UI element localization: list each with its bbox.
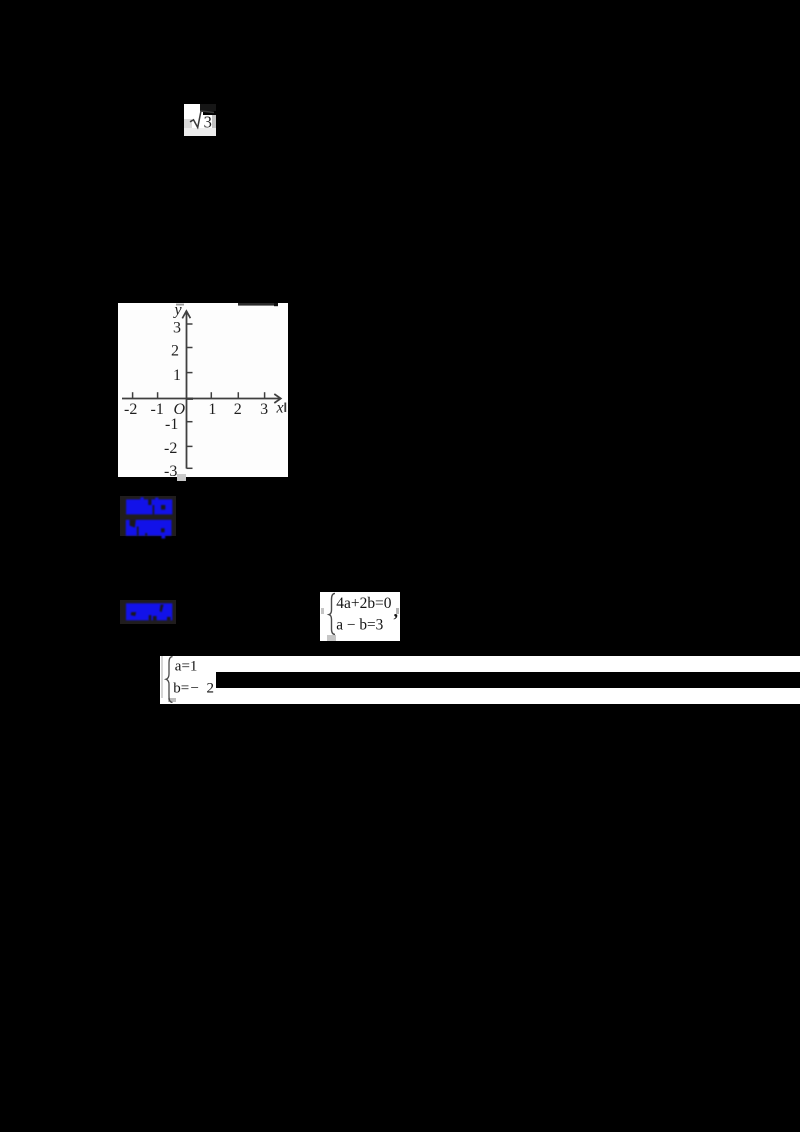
svg-text:b=: b= (173, 680, 189, 696)
svg-text:2: 2 (207, 680, 215, 696)
line1 dark notches (148, 499, 151, 505)
gray handle (168, 698, 176, 703)
svg-text:1: 1 (208, 401, 216, 418)
svg-text:y: y (173, 303, 183, 319)
labels (124, 302, 284, 481)
x ticks (133, 392, 265, 398)
radical sign and 3 (184, 104, 216, 136)
cursor bar right (284, 403, 286, 413)
black notch top-right (200, 104, 216, 111)
brace (166, 656, 173, 702)
svg-text:,: , (394, 601, 399, 621)
line2 dark notches (130, 520, 136, 528)
gray resize handles (321, 608, 324, 614)
svg-text:2: 2 (171, 343, 179, 360)
svg-text:x: x (276, 400, 284, 417)
bottom gray handle (overflows box) (177, 474, 186, 481)
formula image sqrt(3) (184, 104, 216, 136)
top smudge (238, 303, 275, 306)
svg-text:3: 3 (260, 401, 268, 418)
label box 1 (two lines of blue chinese text) (120, 496, 176, 536)
svg-text:a=1: a=1 (175, 658, 198, 674)
equation image 2: {a=1 ; b=-2 with long white strip and black bar (160, 656, 800, 704)
svg-text:a − b=3: a − b=3 (336, 617, 383, 634)
svg-text:−: − (191, 680, 199, 696)
x arrowhead (274, 394, 281, 403)
y ticks (187, 324, 193, 468)
svg-text:4a+2b=0: 4a+2b=0 (336, 595, 391, 612)
svg-text:2: 2 (234, 401, 242, 418)
svg-text:-1: -1 (165, 416, 178, 433)
brace (329, 593, 335, 634)
y-axis (186, 311, 188, 469)
svg-text:-1: -1 (151, 401, 164, 418)
svg-text:1: 1 (173, 367, 181, 384)
svg-text:O: O (174, 401, 186, 418)
equation image 1: {4a+2b=0 ; a-b=3}, (320, 592, 400, 641)
svg-text:3: 3 (204, 112, 212, 131)
line1 main band (126, 499, 172, 514)
coordinate graph image (118, 303, 288, 477)
line2 main band (126, 520, 172, 536)
svg-text:-3: -3 (164, 463, 177, 480)
svg-text:-2: -2 (164, 440, 177, 457)
svg-text:-2: -2 (124, 401, 137, 418)
y arrowhead (182, 311, 190, 318)
line1 protrusions (141, 497, 144, 500)
origin crossing dash (186, 398, 193, 400)
x-axis (122, 398, 280, 400)
label box 2 (one line of blue chinese text) (120, 600, 176, 624)
gray shading patches (184, 119, 192, 128)
black bar (216, 672, 800, 688)
svg-text:3: 3 (173, 320, 181, 337)
